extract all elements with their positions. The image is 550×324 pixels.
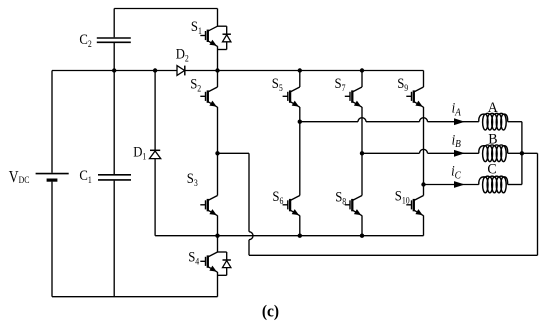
current arrow iC — [454, 181, 465, 188]
antiparallel diode of S1 — [218, 26, 231, 49]
wire S10 emitter to emitter bus — [423, 216, 425, 236]
node C2 mid bus junction — [112, 68, 116, 72]
wire mid bus to C1 — [113, 71, 115, 175]
transistor S8 — [345, 196, 362, 216]
winding C coil — [479, 176, 508, 193]
wire neutral to tie node — [522, 152, 538, 154]
wire neutral vertical upper — [248, 153, 250, 231]
antiparallel diode of S4 — [218, 252, 231, 275]
wire D1 branch upper — [154, 71, 156, 151]
wire C2 rail top segment — [113, 9, 115, 38]
wire phase A segment 1 — [300, 121, 358, 123]
wire S1 emitter to mid bus — [217, 46, 219, 70]
wire hop neutral over emitter bus — [249, 232, 253, 240]
node S8 emitter bus junction — [360, 234, 364, 238]
wire neutral vertical lower — [248, 240, 250, 256]
transistor S9 — [406, 87, 423, 107]
node S1 S2 junction — [215, 68, 219, 72]
wire neutral from midpoint — [218, 152, 250, 154]
wire hop phase A over S9 leg — [420, 118, 428, 122]
wire hop phase A over S7 leg — [358, 118, 366, 122]
transistor S2 — [200, 87, 217, 107]
wire S5 emitter to phase A node — [299, 107, 301, 122]
node S3 emitter bus junction — [215, 234, 219, 238]
wire S8 emitter to emitter bus — [361, 216, 363, 236]
wire D1 branch lower to emitter bus — [154, 159, 156, 236]
node D1 mid bus junction — [153, 68, 157, 72]
wire phase C segment 1 — [424, 184, 479, 186]
transistor S10 — [406, 196, 423, 216]
wire S2 emitter to midpoint — [217, 107, 219, 153]
battery VDC — [36, 174, 69, 181]
transistor S3 — [200, 196, 217, 216]
svg-text:C: C — [487, 161, 496, 178]
winding A coil — [479, 113, 508, 130]
wire S6 collector — [299, 122, 301, 196]
transistor S1 — [200, 26, 217, 46]
wire C1 to bottom bus — [113, 181, 115, 297]
node winding neutral tie — [520, 151, 524, 155]
wire phase C to tie rail — [508, 184, 522, 186]
wire mid bus right segment — [185, 70, 424, 72]
wire neutral bottom — [249, 254, 538, 256]
wire S1 collector — [217, 9, 219, 27]
transistor S6 — [283, 196, 300, 216]
node S5 mid bus junction — [298, 68, 302, 72]
wire S5 collector — [299, 71, 301, 88]
wire S4 collector — [217, 236, 219, 252]
node S7 mid bus junction — [360, 68, 364, 72]
wire S3 emitter to emitter bus — [217, 216, 219, 236]
capacitor C1 — [98, 175, 131, 180]
winding B coil — [479, 145, 508, 162]
current arrow iB — [454, 150, 465, 157]
wire phase A segment 3 — [428, 121, 479, 123]
diode D1 — [150, 150, 161, 158]
wire tie rail vertical — [521, 122, 523, 185]
wire top from C2 rail to S1 collector — [114, 8, 217, 10]
node S2 S3 midpoint — [215, 151, 219, 155]
svg-text:(c): (c) — [262, 301, 279, 321]
wire bottom bus — [52, 296, 218, 298]
wire phase A to tie rail — [508, 121, 522, 123]
svg-text:B: B — [488, 131, 497, 148]
capacitor C2 — [97, 38, 131, 42]
wire left rail down to battery — [51, 71, 53, 173]
wire S9 emitter to phase C node — [423, 107, 425, 185]
wire S6 emitter to emitter bus — [299, 216, 301, 236]
node phase B tap — [360, 151, 364, 155]
node S6 emitter bus junction — [298, 234, 302, 238]
wire phase A segment 2 — [366, 121, 420, 123]
wire S8 collector — [361, 153, 363, 195]
transistor S4 — [200, 252, 217, 272]
wire phase B segment 1 — [362, 152, 420, 154]
wire S4 emitter to bottom bus — [217, 272, 219, 297]
wire S3 collector — [217, 153, 219, 195]
wire mid bus left segment (to D2 anode) — [52, 70, 177, 72]
wire phase B segment 2 — [428, 152, 479, 154]
wire C2 to mid bus — [113, 43, 115, 71]
wire neutral right vertical — [537, 153, 539, 255]
wire phase B to tie rail — [508, 152, 522, 154]
wire S2 collector — [217, 71, 219, 88]
transistor S7 — [345, 87, 362, 107]
node phase C tap — [421, 182, 425, 186]
svg-text:A: A — [488, 100, 499, 117]
wire S7 collector — [361, 71, 363, 88]
wire S9 branch top — [423, 71, 425, 88]
wire emitter bus (S3 S6 S8 S10) — [155, 235, 423, 237]
wire hop phase B over S9 leg — [420, 149, 428, 153]
wire S7 emitter to phase B node — [361, 107, 363, 153]
diode D2 — [177, 66, 185, 76]
transistor S5 — [283, 87, 300, 107]
wire battery to bottom bus — [51, 182, 53, 297]
node phase A tap — [298, 120, 302, 124]
wire S10 collector — [423, 185, 425, 196]
current arrow iA — [454, 118, 465, 125]
